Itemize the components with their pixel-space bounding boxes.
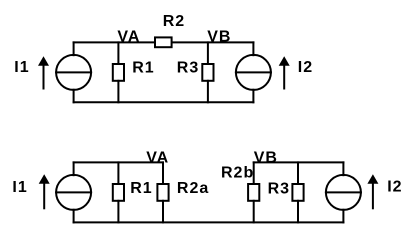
svg-text:R1: R1 bbox=[130, 180, 152, 197]
resistor R1 (bottom) bbox=[113, 184, 124, 201]
svg-text:R3: R3 bbox=[177, 60, 199, 77]
wire top rail (top circuit) bbox=[74, 41, 254, 43]
arrow I2 (top) bbox=[283, 65, 285, 89]
svg-text:VA: VA bbox=[117, 28, 140, 45]
arrowhead I2 (top) bbox=[279, 56, 290, 66]
wire I1 bottom lead (bottom) bbox=[73, 210, 75, 223]
resistor R1 (top) bbox=[113, 64, 124, 81]
wire R2a top lead bbox=[162, 162, 164, 184]
wire I2 bottom lead bbox=[252, 90, 254, 103]
wire top rail right (bottom circuit) bbox=[254, 161, 344, 163]
wire R3 bottom lead bbox=[207, 81, 209, 103]
current source I2 (top) bbox=[236, 55, 271, 90]
wire R1 top lead (bottom) bbox=[117, 162, 119, 184]
resistor R2b bbox=[248, 184, 259, 201]
wire I2 top lead (bottom) bbox=[342, 162, 344, 175]
svg-text:R2b: R2b bbox=[221, 164, 254, 181]
wire I1 top lead (bottom) bbox=[73, 162, 75, 175]
arrow I2 (bottom) bbox=[372, 183, 374, 209]
resistor R3 (bottom) bbox=[292, 184, 303, 201]
wire R2a bottom lead bbox=[162, 201, 164, 223]
wire bottom rail (bottom circuit) bbox=[74, 221, 344, 223]
wire R3 top lead (bottom) bbox=[297, 162, 299, 184]
svg-text:R3: R3 bbox=[268, 180, 290, 197]
current source I1 (bottom) bbox=[56, 175, 91, 210]
svg-text:R2a: R2a bbox=[177, 180, 209, 197]
wire R2b top lead bbox=[253, 162, 255, 184]
arrowhead I1 (top) bbox=[38, 56, 49, 66]
svg-text:VB: VB bbox=[254, 149, 278, 166]
current source I1 (top) bbox=[56, 55, 91, 90]
wire I2 top lead bbox=[252, 42, 254, 55]
svg-text:R1: R1 bbox=[132, 60, 154, 77]
wire R1 top lead bbox=[117, 42, 119, 64]
wire R3 top lead bbox=[207, 42, 209, 64]
svg-text:VB: VB bbox=[207, 28, 231, 45]
wire R2b bottom lead bbox=[253, 201, 255, 223]
resistor R2a bbox=[157, 184, 168, 201]
svg-text:I1: I1 bbox=[12, 179, 27, 196]
wire R3 bottom lead (bottom) bbox=[297, 201, 299, 223]
svg-text:I1: I1 bbox=[14, 59, 29, 76]
wire I1 bottom lead bbox=[73, 90, 75, 103]
arrow I1 (top) bbox=[43, 65, 45, 89]
resistor R3 (top) bbox=[202, 64, 213, 81]
svg-text:I2: I2 bbox=[298, 59, 313, 76]
wire bottom rail (top circuit) bbox=[74, 101, 254, 103]
wire I1 top lead bbox=[73, 42, 75, 55]
arrow I1 (bottom) bbox=[43, 183, 45, 209]
wire I2 bottom lead (bottom) bbox=[342, 210, 344, 223]
current source I2 (bottom) bbox=[326, 175, 361, 210]
svg-text:I2: I2 bbox=[387, 179, 402, 196]
arrowhead I2 (bottom) bbox=[367, 174, 378, 184]
svg-text:VA: VA bbox=[146, 149, 169, 166]
arrowhead I1 (bottom) bbox=[39, 174, 50, 184]
svg-text:R2: R2 bbox=[163, 13, 185, 30]
wire R1 bottom lead bbox=[117, 81, 119, 103]
resistor R2 (top) bbox=[155, 37, 172, 47]
wire R1 bottom lead (bottom) bbox=[117, 201, 119, 223]
wire top rail left (bottom circuit) bbox=[74, 161, 163, 163]
